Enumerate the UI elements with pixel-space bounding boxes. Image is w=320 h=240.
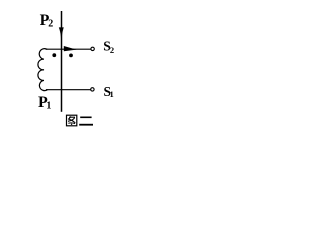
图 inner component (冬) <box>68 116 71 119</box>
arrowhead: current direction into P2 (downward) <box>59 28 64 40</box>
label P2 <box>40 12 54 30</box>
label S2 <box>103 38 114 54</box>
polarity dot (left, on primary side) <box>52 53 56 57</box>
svg-text:2: 2 <box>48 19 53 30</box>
inductor coil L (winding, 4 turns) <box>38 49 48 91</box>
caption: 图二 (Figure 2), drawn as strokes <box>67 115 94 126</box>
二 top bar <box>80 116 91 118</box>
label P1 <box>38 94 51 112</box>
二 bottom bar <box>79 124 93 126</box>
label S1 <box>104 84 114 99</box>
svg-text:1: 1 <box>110 89 114 99</box>
arrowhead: current direction toward S2 (rightward) <box>64 46 77 51</box>
wire: primary vertical lead P2 to P1 <box>61 11 63 112</box>
polarity dot (right, on secondary side) <box>69 54 73 58</box>
图 outer box <box>67 115 77 126</box>
svg-text:1: 1 <box>46 100 51 111</box>
terminal S2 <box>91 47 94 50</box>
wire: bottom secondary lead to S1 <box>46 89 91 91</box>
wire: top secondary lead to S2 <box>46 48 91 50</box>
terminal S1 <box>91 88 94 91</box>
svg-text:2: 2 <box>110 45 114 55</box>
